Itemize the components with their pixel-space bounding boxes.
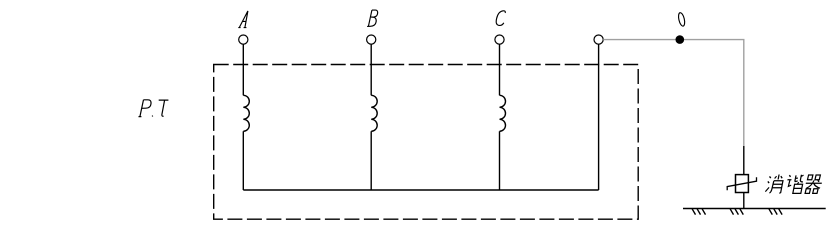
wire phase C lower — [499, 131, 501, 190]
wire into eliminator — [743, 146, 745, 175]
node B label — [367, 10, 378, 26]
PT enclosure dashed box — [214, 65, 639, 220]
ground hatch group 2 — [730, 209, 743, 215]
terminal A — [239, 35, 248, 44]
terminal C — [495, 35, 504, 44]
winding L-C — [500, 95, 506, 131]
wire O to eliminator (gray) — [603, 40, 744, 146]
wire neutral vertical — [598, 44, 600, 190]
junction node O — [676, 35, 685, 44]
node A label — [238, 11, 248, 28]
label eliminator text (qi) — [804, 175, 824, 193]
label eliminator text (xiao) — [765, 175, 784, 194]
terminal N — [594, 35, 603, 44]
label eliminator text (xie) — [785, 175, 805, 194]
wire star bus — [243, 189, 598, 191]
wire phase C upper — [499, 44, 501, 95]
ground hatch group 3 — [769, 209, 782, 215]
eliminator nonlinearity stroke — [727, 177, 756, 190]
winding L-A — [243, 95, 249, 131]
ground hatch group 1 — [692, 209, 705, 215]
wire eliminator to ground — [743, 193, 745, 209]
node O label — [677, 12, 685, 27]
wire phase A lower — [242, 131, 244, 190]
terminal B — [367, 35, 376, 44]
ground line — [683, 208, 826, 210]
eliminator body — [736, 175, 749, 193]
winding L-B — [371, 95, 377, 131]
wire phase B lower — [370, 131, 372, 190]
wire phase B upper — [370, 44, 372, 95]
wire phase A upper — [242, 44, 244, 95]
node C label — [496, 11, 505, 26]
label P.T — [139, 100, 169, 117]
